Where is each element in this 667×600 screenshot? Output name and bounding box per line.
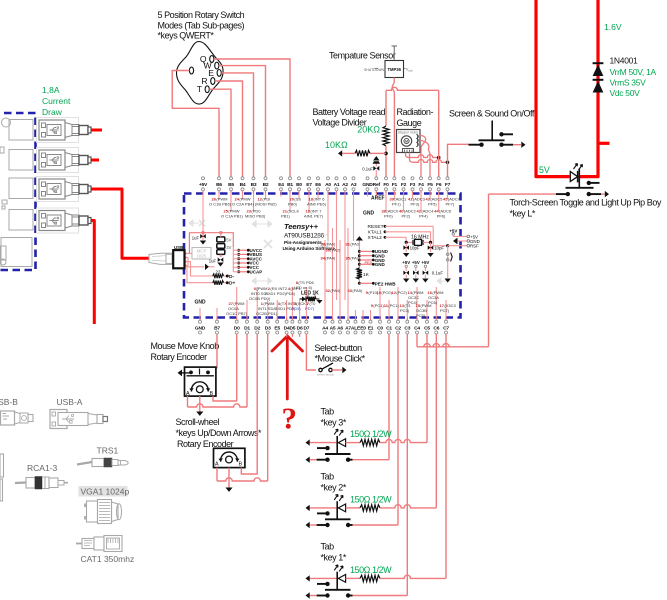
svg-text:20KΩ: 20KΩ <box>357 125 380 135</box>
stubs D4 D5 D6 <box>286 334 288 337</box>
svg-text:5V: 5V <box>539 165 550 175</box>
wire scroll A to D3 <box>216 468 218 481</box>
svg-text:B2: B2 <box>263 182 269 188</box>
wire scroll C to gnd <box>228 468 230 488</box>
svg-text:O C1A PB1): O C1A PB1) <box>221 214 243 219</box>
svg-text:B4: B4 <box>240 182 246 188</box>
wire 10K to gnd arrow <box>342 152 355 154</box>
svg-text:(PC1): (PC1) <box>388 303 399 308</box>
wire divider to 10K <box>370 152 386 154</box>
wire C2 down <box>397 334 399 525</box>
svg-text:UCAP: UCAP <box>250 269 263 274</box>
USB plug 3 <box>39 179 91 199</box>
svg-text:MISO PB3): MISO PB3) <box>245 214 266 219</box>
resistor 150 key 1 <box>360 575 380 581</box>
wire resistor to C pin key 3 <box>380 439 427 442</box>
right edge connector +5V GND RSF <box>453 235 467 237</box>
led tab key 2 <box>336 501 338 519</box>
gauge wires to F pins <box>420 136 426 178</box>
svg-text:F1: F1 <box>392 182 398 188</box>
svg-text:AIN0 PE6): AIN0 PE6) <box>307 202 327 207</box>
svg-text:(PA4): (PA4) <box>330 288 341 293</box>
svg-text:B5: B5 <box>228 182 234 188</box>
svg-text:D-: D- <box>229 274 234 280</box>
svg-text:C4: C4 <box>414 325 420 331</box>
svg-text:E0: E0 <box>360 325 366 331</box>
svg-text:+5V: +5V <box>199 182 208 188</box>
interior A-row wires <box>336 253 338 300</box>
svg-text:PD7): PD7) <box>305 306 315 311</box>
svg-text:PF7): PF7) <box>446 202 455 207</box>
wire led left key 1 <box>310 577 337 579</box>
svg-text:PF3): PF3) <box>411 202 420 207</box>
svg-text:XTAL2: XTAL2 <box>368 235 383 241</box>
svg-text:Tempature Sensor: Tempature Sensor <box>329 51 396 61</box>
svg-text:PF6): PF6) <box>437 214 446 219</box>
svg-text:Battery Voltage read: Battery Voltage read <box>313 107 386 117</box>
wire F7 to switch <box>448 144 469 177</box>
power flag up <box>373 156 379 161</box>
svg-text:M: M <box>405 140 408 144</box>
svg-text:D7: D7 <box>303 325 309 331</box>
svg-text:*Mouse Click*: *Mouse Click* <box>315 354 366 364</box>
svg-text:PB0): PB0) <box>288 202 298 207</box>
svg-text:F4: F4 <box>418 182 424 188</box>
svg-text:D5: D5 <box>289 325 295 331</box>
svg-text:E1: E1 <box>368 325 374 331</box>
svg-text:*key 1*: *key 1* <box>321 553 347 563</box>
rotary contact T <box>205 86 209 93</box>
connector USB-A art <box>50 410 67 429</box>
svg-text:+5V: +5V <box>402 260 410 265</box>
wire torch to C4 <box>489 193 557 195</box>
wire C3 down <box>406 334 408 596</box>
svg-text:*key L*: *key L* <box>510 209 536 219</box>
mini-usb plug to teensy <box>149 253 172 264</box>
cap 0.1uF on Ref <box>375 163 377 167</box>
caps 10pF <box>405 242 407 252</box>
svg-text:C0: C0 <box>377 325 383 331</box>
wire switch left key 2 <box>310 524 317 526</box>
connector RCA art <box>15 481 26 484</box>
svg-text:GND: GND <box>363 211 375 217</box>
svg-text:1,8A: 1,8A <box>42 85 60 95</box>
encoder arc mouse <box>196 386 203 393</box>
svg-text:A6: A6 <box>337 325 343 331</box>
encoder ENC1 mouse <box>185 367 216 396</box>
power rail right <box>580 0 599 177</box>
svg-text:R: R <box>201 76 207 86</box>
svg-text:D3: D3 <box>265 325 271 331</box>
red arrow marker <box>272 336 303 399</box>
svg-text:*keys QWERT*: *keys QWERT* <box>158 31 215 41</box>
svg-text:1K: 1K <box>363 272 370 278</box>
reset wire right <box>433 226 448 245</box>
svg-text:E6: E6 <box>315 182 321 188</box>
rotary contact common <box>189 67 193 74</box>
svg-text:F5: F5 <box>427 182 433 188</box>
svg-text:A: A <box>215 462 219 468</box>
wire led to resistor key 2 <box>346 507 360 509</box>
switch S key 2 <box>317 512 328 514</box>
svg-text:RSF: RSF <box>470 244 479 249</box>
svg-text:LED on 6): LED on 6) <box>294 285 313 290</box>
teensy top pin row <box>199 177 451 194</box>
svg-text:RESET: RESET <box>368 224 384 230</box>
svg-text:A5: A5 <box>330 325 336 331</box>
radiation gauge stepper M1 <box>397 130 421 153</box>
svg-text:USB-B: USB-B <box>0 397 18 407</box>
svg-text:*key 3*: *key 3* <box>321 418 347 428</box>
wire led to resistor key 3 <box>346 442 360 444</box>
svg-text:USB-A: USB-A <box>57 397 83 407</box>
svg-text:(PA2): (PA2) <box>330 248 341 253</box>
resistor R-10K <box>355 150 370 156</box>
wire led to resistor key 1 <box>346 577 360 579</box>
interior bottom pin stubs <box>200 228 446 318</box>
svg-text:Ref: Ref <box>373 182 381 188</box>
svg-text:A0: A0 <box>325 182 331 188</box>
diode D1 1N4001 <box>593 65 604 77</box>
svg-text:TMP36: TMP36 <box>387 67 401 72</box>
USB plug 2 <box>39 150 91 170</box>
svg-text:GND: GND <box>194 300 206 306</box>
connector CAT art <box>76 543 82 545</box>
svg-text:(PC2): (PC2) <box>396 290 407 295</box>
svg-text:out: out <box>409 69 413 73</box>
svg-text:150Ω 1/2W: 150Ω 1/2W <box>350 429 392 439</box>
wire usb4 down <box>91 221 94 325</box>
svg-text:AIN1 PE7): AIN1 PE7) <box>304 214 324 219</box>
wire T to B5 <box>209 89 231 177</box>
svg-text:GND: GND <box>195 325 206 331</box>
svg-text:O C1B PB6): O C1B PB6) <box>209 202 232 207</box>
wire E to B3 <box>221 73 253 177</box>
temp sensor U2 TMP36 <box>385 61 404 78</box>
svg-text:Select-button: Select-button <box>315 343 363 353</box>
svg-text:1uF: 1uF <box>209 259 217 264</box>
svg-text:D1: D1 <box>244 325 250 331</box>
svg-text:TRS1: TRS1 <box>97 446 119 456</box>
wire usb3 to teensy usb <box>91 189 149 258</box>
wire W to B2 <box>219 66 266 177</box>
gnd labels left column <box>356 236 363 240</box>
svg-text:C3: C3 <box>404 325 410 331</box>
svg-text:GND: GND <box>362 182 373 188</box>
svg-text:PC5): PC5) <box>416 313 426 318</box>
svg-text:Scroll-wheel: Scroll-wheel <box>176 417 220 427</box>
svg-text:B1: B1 <box>287 182 293 188</box>
svg-text:Mouse Move Knob: Mouse Move Knob <box>151 341 220 351</box>
rotary contact R <box>211 78 215 85</box>
connector VGA art <box>84 504 86 508</box>
USB plug 4 <box>39 211 91 231</box>
svg-text:1uF: 1uF <box>192 236 200 241</box>
led LED1 torch <box>570 172 577 182</box>
svg-text:C5: C5 <box>424 325 430 331</box>
svg-text:1N4001: 1N4001 <box>610 56 639 66</box>
svg-text:Screen & Sound On/Off: Screen & Sound On/Off <box>449 109 535 119</box>
wire led left key 2 <box>310 507 337 509</box>
switch S key 3 <box>317 447 328 449</box>
svg-text:OC1C PB7): OC1C PB7) <box>226 311 248 316</box>
led tab key 1 <box>336 572 338 590</box>
wire Q to B1 <box>214 59 290 177</box>
svg-text:1825: 1825 <box>197 254 207 259</box>
svg-text:GND: GND <box>375 262 386 267</box>
switch S2 screen-sound <box>491 121 493 140</box>
svg-text:?: ? <box>282 401 298 436</box>
power rail left <box>536 0 570 177</box>
svg-text:PF2): PF2) <box>402 214 411 219</box>
connector USB-B art <box>1 411 15 425</box>
svg-text:Vdc 50V: Vdc 50V <box>610 88 641 98</box>
hub slot outlines <box>37 118 79 143</box>
svg-text:Tab: Tab <box>321 472 335 482</box>
wire mouse A to D1 <box>187 396 189 407</box>
resistor 150 key 3 <box>360 439 380 445</box>
svg-text:T: T <box>197 84 203 94</box>
svg-text:PE0: PE0 <box>364 260 372 265</box>
svg-text:150Ω 1/2W: 150Ω 1/2W <box>350 565 392 575</box>
wire usb2 stub <box>91 159 99 162</box>
reservoir caps 5V 3V <box>217 237 225 242</box>
wire resistor to C pin key 1 <box>380 575 446 578</box>
svg-text:3V: 3V <box>226 245 231 250</box>
wires mcp to labels <box>186 253 193 255</box>
rotary contact E <box>217 70 221 77</box>
svg-text:CAT1 350mhz: CAT1 350mhz <box>81 554 135 564</box>
svg-text:PC7): PC7) <box>440 308 450 313</box>
resistor 150 key 2 <box>360 505 380 511</box>
svg-text:A2: A2 <box>342 182 348 188</box>
svg-text:E5: E5 <box>274 325 280 331</box>
svg-text:B: B <box>239 462 243 468</box>
svg-text:PD4): PD4) <box>286 291 296 296</box>
svg-text:(PA4): (PA4) <box>325 256 336 261</box>
svg-text:A4: A4 <box>322 325 328 331</box>
usb connector pads <box>183 252 186 254</box>
svg-text:+5V: +5V <box>421 260 429 265</box>
svg-text:VrrM 50V, 1A: VrrM 50V, 1A <box>610 67 657 77</box>
svg-text:Gauge: Gauge <box>397 118 422 128</box>
svg-text:F0: F0 <box>383 182 389 188</box>
teensy bottom pin row <box>195 318 450 335</box>
wire switch out arrow <box>513 144 521 146</box>
wire switch left key 3 <box>310 459 317 461</box>
svg-text:150Ω 1/2W: 150Ω 1/2W <box>350 494 392 504</box>
svg-text:RXD1 PD2): RXD1 PD2) <box>265 291 287 296</box>
wire switch left key 1 <box>310 595 317 597</box>
wire switch to C pin key 1 <box>353 595 408 597</box>
wire mouse C to gnd <box>199 396 201 411</box>
svg-text:B7: B7 <box>214 325 220 331</box>
wire C6 down <box>435 334 437 508</box>
wire scroll B to D2 <box>241 334 257 474</box>
svg-text:LED 1K: LED 1K <box>301 291 319 297</box>
svg-text:AREF: AREF <box>371 196 385 202</box>
svg-text:PF0): PF0) <box>384 214 393 219</box>
svg-text:(PA5): (PA5) <box>352 288 363 293</box>
svg-text:Tab: Tab <box>321 407 335 417</box>
wire C1 down <box>388 334 390 460</box>
svg-text:XTAL1: XTAL1 <box>368 230 383 236</box>
svg-text:1.6V: 1.6V <box>604 22 622 32</box>
switch S4 select <box>319 368 322 371</box>
svg-text:PF4): PF4) <box>419 214 428 219</box>
switch S3 torch toggle <box>578 169 580 188</box>
wire +5V pin to regulator <box>202 238 204 240</box>
rotary contact W <box>215 62 219 69</box>
svg-text:USB: USB <box>174 245 183 250</box>
junction dots gauge <box>437 156 441 160</box>
rotary contact Q <box>210 56 214 63</box>
svg-text:C1: C1 <box>386 325 392 331</box>
wire TMP36 out to F1 <box>392 78 394 178</box>
svg-text:select-button: select-button <box>317 373 335 377</box>
interior top pin stubs <box>203 194 448 254</box>
gnd arrow left <box>338 150 342 156</box>
svg-text:Tab: Tab <box>321 542 335 552</box>
svg-text:Draw: Draw <box>42 107 63 117</box>
svg-text:Stepper motor: Stepper motor <box>398 130 419 134</box>
wire battery rail to F6 <box>438 90 440 177</box>
svg-text:10KΩ: 10KΩ <box>325 140 348 150</box>
teensy board outline (dashed) <box>184 194 461 318</box>
svg-text:(PA0): (PA0) <box>325 242 336 247</box>
wire usb1 stub <box>91 129 102 132</box>
wire switch to C pin key 2 <box>353 524 399 526</box>
connector TRS art <box>77 462 92 465</box>
USB hub board outline (dashed) <box>0 113 36 270</box>
hub pcb parts <box>9 120 33 141</box>
svg-text:PF5): PF5) <box>428 202 437 207</box>
svg-text:D6: D6 <box>297 325 303 331</box>
svg-text:+5V: +5V <box>412 260 420 265</box>
svg-text:F3: F3 <box>410 182 416 188</box>
wire B7 to encoder <box>208 334 217 371</box>
watermark arrows <box>189 220 450 284</box>
wire led left key 3 <box>310 442 337 444</box>
svg-text:O C2A PB4): O C2A PB4) <box>232 202 254 207</box>
svg-text:C7: C7 <box>443 325 449 331</box>
svg-text:D+: D+ <box>229 281 235 287</box>
svg-text:Radiation-: Radiation- <box>397 107 434 117</box>
wire resistor to C pin key 2 <box>380 505 436 508</box>
svg-text:VGA1 1024p: VGA1 1024p <box>81 487 130 497</box>
svg-text:5 Position Rotary Switch: 5 Position Rotary Switch <box>158 10 245 20</box>
encoder ENC2 scroll <box>214 448 245 467</box>
svg-text:B0: B0 <box>296 182 302 188</box>
wire D7 to select <box>306 334 316 370</box>
svg-text:PC3): PC3) <box>400 308 410 313</box>
svg-text:VrmS 35V: VrmS 35V <box>610 78 647 88</box>
rotary switch S1 body <box>177 42 224 105</box>
wire R to B4 <box>215 81 243 177</box>
label VGA1 1024p <box>79 486 128 497</box>
svg-text:F2: F2 <box>401 182 407 188</box>
svg-text:A1: A1 <box>334 182 340 188</box>
left edge partial connector <box>0 454 4 477</box>
svg-text:F6: F6 <box>436 182 442 188</box>
svg-text:PE2 HWB: PE2 HWB <box>375 281 397 286</box>
svg-text:Modes (Tab Sub-pages): Modes (Tab Sub-pages) <box>158 21 245 31</box>
wire common to B6 <box>172 71 219 178</box>
wire battery rail <box>386 87 439 90</box>
svg-text:E: E <box>208 68 214 78</box>
svg-text:RCA1-3: RCA1-3 <box>27 463 58 473</box>
fanout to power labels <box>232 233 234 247</box>
USB plug 1 <box>39 120 91 140</box>
wire C5 down <box>426 334 428 443</box>
diode D2 1N4001 <box>593 81 604 93</box>
svg-text:*keys Up/Down Arrows*: *keys Up/Down Arrows* <box>176 428 263 438</box>
wire mouse B to D0 <box>213 334 237 401</box>
switch S key 1 <box>317 583 328 585</box>
wire switch to C pin key 3 <box>353 459 390 461</box>
svg-text:D2: D2 <box>254 325 260 331</box>
svg-text:A3: A3 <box>351 182 357 188</box>
svg-text:10pF: 10pF <box>410 246 420 251</box>
svg-text:B6: B6 <box>216 182 222 188</box>
piezo element <box>446 253 449 256</box>
wire 20K to F0 <box>385 146 387 177</box>
regulator U3 MCP1825 <box>192 248 211 260</box>
svg-text:Torch-Screen Toggle and Light: Torch-Screen Toggle and Light Up Pip Boy <box>510 198 662 208</box>
PE2 HWB <box>358 282 361 285</box>
svg-text:PF1): PF1) <box>392 202 401 207</box>
resistor R-20K <box>383 126 389 146</box>
svg-text:D0: D0 <box>234 325 240 331</box>
resistor 1K interior <box>358 266 360 268</box>
svg-text:(MOSI PB2): (MOSI PB2) <box>255 202 277 207</box>
wire select out <box>332 369 342 371</box>
svg-text:E7: E7 <box>306 182 312 188</box>
usb power bus <box>189 233 233 254</box>
svg-text:E4: E4 <box>278 182 284 188</box>
resistor 22 D+ <box>213 281 224 285</box>
svg-text:SHUTDOWN: SHUTDOWN <box>364 68 385 72</box>
svg-text:5V: 5V <box>226 238 231 243</box>
svg-text:0.1uF: 0.1uF <box>362 167 373 172</box>
svg-text:OC2B PD1): OC2B PD1) <box>256 311 278 316</box>
svg-text:PD5): PD5) <box>292 306 302 311</box>
svg-text:B3: B3 <box>251 182 257 188</box>
svg-text:Teensy++: Teensy++ <box>284 222 319 231</box>
svg-text:PB1): PB1) <box>281 214 291 219</box>
svg-text:Current: Current <box>42 96 71 106</box>
led tab key 3 <box>336 436 338 454</box>
svg-text:*key 2*: *key 2* <box>321 483 347 493</box>
svg-text:Rotary Encoder: Rotary Encoder <box>151 352 208 362</box>
svg-text:F7: F7 <box>445 182 451 188</box>
wire C7 down <box>445 334 447 578</box>
svg-text:C6: C6 <box>433 325 439 331</box>
svg-text:0.1uF: 0.1uF <box>432 271 444 276</box>
svg-text:C2: C2 <box>395 325 401 331</box>
rail stub <box>598 142 610 145</box>
